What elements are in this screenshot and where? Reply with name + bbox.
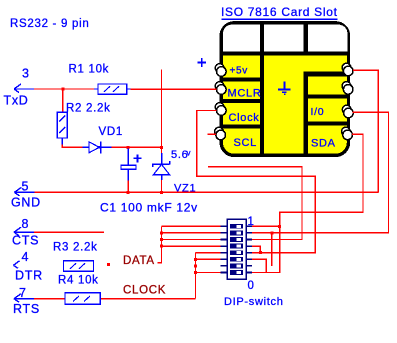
svg-text:C1 100 mkF 12v: C1 100 mkF 12v [100, 200, 198, 214]
title ISO 7816 Card Slot [221, 5, 338, 19]
card slot body [221, 23, 348, 156]
svg-text:1: 1 [248, 216, 255, 228]
card top bar [221, 51, 348, 55]
DATA bus vertical [158, 226, 162, 263]
node row5 tap [259, 251, 262, 254]
contact right 4 [342, 127, 351, 136]
svg-text:+5v: +5v [230, 66, 249, 77]
svg-text:DATA: DATA [123, 255, 155, 267]
node C1 bottom [127, 191, 130, 194]
svg-text:CLOCK: CLOCK [123, 285, 166, 297]
card right cell bar 2 [304, 122, 349, 126]
wire SDA net [221, 134, 364, 272]
wire Clock net [196, 111, 316, 253]
wire CTS [34, 231, 104, 233]
wire SCL net [208, 133, 217, 135]
wire C1 bottom [127, 181, 129, 193]
svg-text:CTS: CTS [12, 234, 39, 248]
pin 5 GND [11, 180, 41, 210]
resistor R2 [57, 89, 110, 146]
diode VD1 [82, 126, 123, 153]
wire diode to zener node [112, 146, 162, 148]
node I/O tap [270, 231, 273, 234]
dip cells [230, 224, 243, 275]
node CLOCK r6 [194, 258, 197, 261]
svg-text:R2 2.2k: R2 2.2k [66, 103, 111, 115]
node VZ1 bottom [160, 191, 163, 194]
wire R1 to MCLR contact [131, 88, 217, 90]
DIP switch [221, 216, 284, 308]
svg-text:R1 10k: R1 10k [69, 64, 110, 76]
capacitor C1 [121, 149, 142, 181]
wire RTS to R4 [34, 298, 65, 300]
card divider 2 top row [304, 24, 309, 55]
wire DIP row8 left [196, 272, 221, 274]
CLOCK bus vertical [195, 253, 197, 299]
svg-text:RTS: RTS [13, 302, 40, 316]
plus sign near card [197, 58, 206, 67]
card right column bar [304, 72, 309, 156]
contact +5v [215, 64, 224, 73]
wire I/O net [221, 112, 389, 232]
card right arm bar [304, 72, 349, 77]
node VZ1 top [160, 146, 163, 149]
node A floating top of +5 rail [161, 69, 163, 147]
node junction R2 tap [61, 88, 64, 91]
wire GND rail [35, 191, 379, 193]
dip pins right [246, 226, 252, 272]
resistor R4 [58, 275, 100, 305]
wire DIP row2 left [162, 232, 221, 234]
svg-text:VD1: VD1 [99, 126, 123, 138]
node C1 top [127, 146, 130, 149]
svg-text:v: v [187, 149, 192, 158]
card divider 1 [260, 24, 264, 155]
svg-text:8: 8 [22, 217, 30, 231]
contact right 3 [342, 105, 351, 114]
svg-text:I/0: I/0 [311, 106, 325, 118]
node DATA stub [107, 263, 110, 266]
wire DIP row1 [162, 225, 280, 227]
svg-text:ISO 7816 Card Slot: ISO 7816 Card Slot [221, 5, 338, 19]
svg-text:SDA: SDA [311, 138, 336, 150]
card ground symbol [278, 82, 290, 96]
svg-text:TxD: TxD [4, 94, 29, 108]
contact Clock [215, 103, 224, 112]
contact right 2 [342, 82, 351, 91]
card left cell bar 1 [222, 78, 264, 82]
card contacts left [215, 63, 354, 140]
svg-text:R4 10k: R4 10k [58, 275, 99, 287]
wire R2 to diode [62, 145, 82, 148]
svg-text:Clock: Clock [229, 112, 260, 124]
svg-text:3: 3 [22, 67, 30, 81]
wire DIP row4 [162, 246, 261, 253]
node CLOCK r8 [194, 271, 197, 274]
pin 8 CTS [12, 217, 39, 248]
svg-text:RS232 - 9 pin: RS232 - 9 pin [10, 18, 89, 30]
wire DIP row3 left [162, 239, 221, 241]
dip pins left [221, 226, 228, 272]
node SDA row1 [278, 225, 281, 228]
pin 4 DTR [14, 250, 43, 283]
wire VZ1 bottom [161, 180, 163, 192]
zener VZ1 [153, 147, 197, 194]
card left cell bar 2 [222, 99, 264, 103]
svg-text:0: 0 [248, 280, 255, 292]
card left cell bar 3 [222, 125, 264, 129]
node DATA r2 [160, 231, 163, 234]
card right cell bar 1 [304, 95, 349, 99]
svg-text:SCL: SCL [234, 137, 258, 149]
svg-text:5: 5 [22, 180, 30, 194]
svg-text:DIP-switch: DIP-switch [224, 296, 284, 308]
resistor R3 [53, 242, 98, 272]
pin 3 TxD [4, 67, 35, 108]
svg-text:7: 7 [19, 286, 27, 300]
node DATA r4 [160, 245, 163, 248]
svg-text:GND: GND [11, 196, 41, 210]
wire TxD to R1 [34, 88, 95, 90]
node CLOCK r7 [194, 264, 197, 267]
contact MCLR [215, 82, 224, 91]
wire I/O tap to row 7 [271, 233, 273, 266]
contact right 1 [342, 63, 351, 72]
wire CLOCK to R4 [100, 298, 195, 300]
resistor R1 [69, 64, 131, 95]
contact SCL [215, 127, 224, 136]
svg-text:MCLR: MCLR [228, 87, 262, 99]
svg-text:4: 4 [22, 250, 30, 264]
svg-text:R3 2.2k: R3 2.2k [53, 242, 98, 254]
wire DIP row6 [196, 259, 267, 272]
wire +5v contact to right rail [353, 70, 378, 192]
pin 7 RTS [13, 286, 40, 316]
node DATA r3 [160, 238, 163, 241]
svg-text:DTR: DTR [15, 269, 43, 283]
